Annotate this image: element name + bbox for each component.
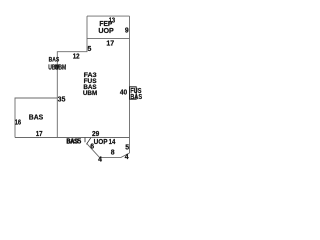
svg-text:9: 9 [125,28,129,35]
svg-text:6: 6 [90,144,94,151]
svg-text:8: 8 [111,149,115,156]
svg-text:BAS: BAS [49,57,60,64]
svg-text:4: 4 [125,154,129,161]
svg-text:16: 16 [15,120,22,127]
svg-text:UOP: UOP [98,26,113,35]
svg-text:UBM: UBM [55,64,67,71]
svg-text:BAS: BAS [130,92,142,101]
svg-text:UOP: UOP [94,137,108,146]
svg-text:14: 14 [109,137,116,146]
svg-text:5: 5 [125,145,129,152]
svg-text:35: 35 [58,96,66,103]
svg-text:UBM: UBM [83,90,97,97]
svg-text:5: 5 [77,136,81,145]
svg-text:BAS: BAS [29,113,44,122]
svg-text:12: 12 [73,53,80,60]
svg-text:4: 4 [98,156,102,163]
svg-text:17: 17 [36,131,43,138]
svg-text:40: 40 [120,89,127,96]
svg-text:17: 17 [106,41,114,48]
svg-text:5: 5 [88,46,92,53]
